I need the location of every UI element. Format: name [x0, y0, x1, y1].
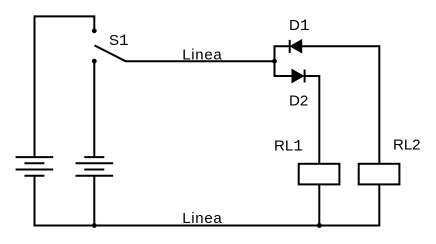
label Linea (top net)	[182, 46, 222, 63]
wire: RL1 vertical drop	[318, 75, 320, 227]
svg-text:Linea: Linea	[182, 210, 222, 227]
battery B2 plate 3 (short)	[84, 169, 104, 171]
relay coil RL1 body	[299, 164, 340, 185]
wire: switch upper terminal stub	[93, 15, 95, 30]
wire: switch common to diode junction (net Linea top)	[125, 60, 275, 62]
battery B1 plate 3 (long)	[16, 169, 54, 171]
wire: vertical tie between D1 and D2 anode branches	[274, 46, 276, 76]
label Linea (bottom net)	[182, 210, 222, 227]
battery B1 plate 1 (long, top)	[16, 156, 54, 158]
wire: right vertical to relay RL2	[378, 45, 380, 226]
wire: D1 anode to right vertical	[302, 45, 380, 47]
svg-text:RL2: RL2	[393, 137, 421, 154]
relay coil RL2 body	[359, 164, 400, 185]
svg-text:RL1: RL1	[274, 137, 303, 155]
node: junction of Linea with D1/D2 anodes	[272, 59, 277, 64]
svg-text:Linea: Linea	[182, 46, 222, 63]
battery B2 plate 1 (short, top)	[84, 156, 104, 158]
node: bottom rail junction with battery B2	[92, 223, 97, 228]
label S1	[109, 32, 129, 50]
wire: D2 anode branch left segment	[274, 75, 293, 77]
battery B2 plate 2 (long)	[76, 162, 114, 164]
svg-text:D2: D2	[289, 92, 308, 109]
switch S1 blade	[95, 45, 126, 61]
node: switch S1 upper terminal	[92, 28, 97, 33]
battery B2 plate 4 (long, bottom)	[76, 175, 114, 177]
wire: top horizontal from battery B1 plus to switch column	[35, 15, 95, 17]
wire: bottom rail (net Linea bottom)	[35, 225, 380, 227]
label D2	[289, 92, 308, 109]
node: switch S1 lower terminal	[92, 59, 97, 64]
diode D1 (cathode bar, pointing left)	[290, 40, 302, 53]
label D1	[289, 17, 309, 35]
label RL1	[274, 137, 303, 155]
wire: battery B2 minus to bottom rail	[93, 176, 95, 226]
wire: left rail upper (B1 top terminal)	[34, 15, 36, 157]
wire: switch lower terminal to battery B2	[93, 61, 95, 157]
wire: D2 cathode to RL1 vertical	[305, 75, 320, 77]
label RL2	[393, 137, 421, 154]
battery B1 plate 4 (short, bottom)	[24, 175, 44, 177]
wire: D1 cathode branch left segment	[274, 45, 290, 47]
wire: left rail lower (B1 minus to bottom rail)	[34, 176, 36, 227]
node: bottom rail junction with RL1	[317, 223, 322, 228]
battery B1 plate 2 (short)	[24, 162, 44, 164]
diode D2 (pointing right, cathode bar right)	[292, 70, 305, 83]
svg-text:D1: D1	[289, 17, 309, 35]
svg-text:S1: S1	[109, 32, 129, 50]
